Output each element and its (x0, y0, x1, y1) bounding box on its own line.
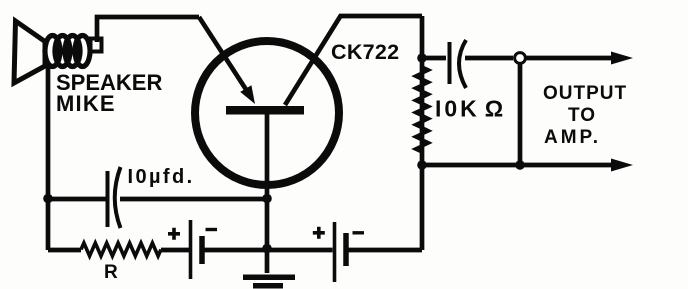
capacitor C1 curved plate (115, 167, 121, 228)
resistor R zigzag (81, 243, 161, 256)
upper output arrowhead (611, 52, 633, 65)
wire: speaker riser and top-left rail (97, 17, 199, 42)
wire: battery B2 to right bus (349, 248, 423, 253)
svg-text:CK722: CK722 (331, 40, 399, 64)
wire: collector diagonal and top-right rail (285, 16, 422, 105)
speaker cone (14, 21, 45, 83)
svg-text:I0µfd.: I0µfd. (128, 166, 195, 188)
wire: terminal to upper arrow (526, 56, 614, 61)
battery B1 positive long plate (189, 220, 193, 279)
junction dot center bottom node (262, 244, 272, 254)
transistor Q1 CK722 circle (195, 41, 339, 185)
wire: resistor to battery B1 (161, 248, 189, 253)
wire: terminal drop connector (518, 64, 523, 165)
capacitor C2 straight plate (448, 42, 452, 84)
svg-text:TO: TO (568, 105, 596, 126)
battery B2 minus sign (353, 231, 365, 234)
speaker mike transducer SPKR (14, 21, 102, 83)
ground symbol (243, 275, 295, 289)
junction dot terminal lower node (515, 160, 525, 170)
capacitor C2 curved plate (459, 40, 466, 88)
capacitor C1 10ufd straight plate (106, 171, 110, 227)
battery B1 negative short plate (199, 236, 205, 264)
wire: base lead vertical (265, 113, 270, 273)
svg-text:I0K Ω: I0K Ω (435, 96, 506, 122)
battery B1 plus sign (168, 228, 180, 240)
junction dot left tee (43, 194, 53, 204)
svg-text:MIKE: MIKE (56, 91, 116, 116)
wire: cap C2 to output terminal (465, 56, 513, 61)
lower output arrowhead (611, 159, 633, 172)
wire: feedback cap wire left segment (48, 197, 106, 202)
svg-text:AMP.: AMP. (544, 127, 601, 148)
battery B2 negative short plate (343, 233, 349, 266)
svg-text:OUTPUT: OUTPUT (543, 83, 627, 104)
wire: left vertical bus (46, 64, 51, 250)
wire: center node to battery B2 (267, 248, 333, 253)
speaker terminal block (91, 39, 102, 52)
wire: battery B1 to center node (205, 248, 268, 253)
output terminal open circle (515, 53, 526, 64)
wire: right vertical bus (420, 16, 425, 250)
junction dot bus top node (417, 53, 427, 63)
wire: upper output from bus to cap C2 (422, 56, 446, 61)
transistor base bar (226, 106, 304, 115)
speaker coil (45, 36, 90, 67)
wire: emitter diagonal into transistor (199, 17, 247, 91)
wire: bottom-left corner to resistor (48, 248, 81, 253)
battery B1 minus sign (206, 228, 218, 231)
battery B2 plus sign (313, 227, 325, 239)
wire: feedback cap wire right segment (120, 197, 267, 202)
junction dot base-cap node (262, 194, 272, 204)
emitter arrowhead (240, 85, 255, 104)
junction dot bus lower node (417, 160, 427, 170)
svg-text:R: R (104, 262, 118, 283)
resistor 10K vertical zigzag (416, 60, 429, 160)
battery B2 positive long plate (333, 222, 337, 282)
wire: lower output rail (422, 163, 614, 168)
